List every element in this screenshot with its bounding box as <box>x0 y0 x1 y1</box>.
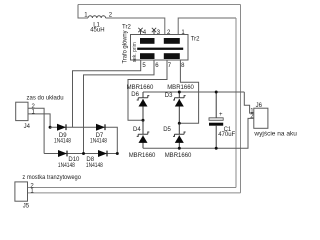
svg-text:sek. prim: sek. prim <box>132 42 138 62</box>
wire Tr2 pin1 to right bus <box>178 18 236 35</box>
label J5 pin 1 <box>30 189 34 195</box>
label J5 pin 2 <box>30 183 34 189</box>
Tr2 core bar <box>137 48 183 50</box>
no-connect X on pin 4 <box>138 28 142 32</box>
diode D4 <box>137 120 150 148</box>
inductor L1 <box>88 16 106 18</box>
node C1 bottom <box>215 147 218 150</box>
svg-text:1N4148: 1N4148 <box>58 163 76 169</box>
wire Tr2 pin8 to D3-D5 node <box>179 60 198 123</box>
label pin 4 <box>143 30 147 36</box>
label 1N4148 D10 <box>58 163 76 169</box>
label pin 5 <box>142 63 146 69</box>
label D7 <box>96 133 104 139</box>
label pin 7 <box>168 63 172 69</box>
node C1 top <box>215 91 218 94</box>
node top row left <box>49 126 52 129</box>
label D4 <box>133 127 141 133</box>
wire J4 pin1 to top row <box>28 114 50 127</box>
label pin 1 <box>181 30 185 36</box>
label Trafo główny (rotated) <box>123 31 129 64</box>
label Tr2 upper <box>122 24 131 30</box>
svg-text:1N4148: 1N4148 <box>54 139 72 145</box>
svg-text:J5: J5 <box>23 204 30 210</box>
diode D7 <box>96 124 105 131</box>
wire J4 pin2 to bottom row <box>28 108 44 153</box>
Tr2 winding bar top-right <box>164 38 180 44</box>
svg-text:D5: D5 <box>163 127 171 133</box>
label D10 <box>68 157 80 163</box>
wire bottom diode row <box>44 153 117 155</box>
wire top diode row <box>50 127 117 153</box>
diode D3 <box>173 92 186 123</box>
wire net to J6 pin1 <box>244 92 254 113</box>
wire right inner vertical <box>235 18 237 188</box>
Tr2 pin 4 stub <box>140 29 142 35</box>
wire Tr2 pin5 to top diode row <box>73 60 141 127</box>
svg-text:Tr2: Tr2 <box>122 24 131 30</box>
label 1N4148 D9 <box>54 139 72 145</box>
label J4 pin 2 <box>32 104 36 110</box>
label MBR1660 bottom-right <box>165 153 192 159</box>
wire J5 pin2 long horizontal <box>28 187 237 189</box>
diode D5 <box>173 123 186 148</box>
label J4 <box>24 124 31 130</box>
diode D8 <box>98 150 107 157</box>
no-connect X on pin 3 <box>152 28 156 32</box>
label J6 <box>256 103 263 109</box>
label L1 pin 2 <box>109 13 113 19</box>
connector J6 box <box>254 108 268 128</box>
node D3 cathode on net <box>178 91 181 94</box>
label wyjście na aku <box>253 131 297 137</box>
label D9 <box>59 133 67 139</box>
label C1 plus <box>219 112 223 118</box>
connector J5 box <box>15 182 28 201</box>
transformer Tr2 box <box>131 35 189 61</box>
svg-text:MBR1660: MBR1660 <box>127 85 154 91</box>
wire Tr2 pin7 to D6-D4 node <box>128 60 167 120</box>
svg-text:MBR1660: MBR1660 <box>167 85 194 91</box>
wire J5 pin1 long horizontal <box>28 192 241 194</box>
diode D10 <box>58 150 67 157</box>
label D8 <box>86 157 94 163</box>
svg-text:470uF: 470uF <box>218 132 235 138</box>
svg-text:D3: D3 <box>165 93 173 99</box>
label L1 <box>93 23 100 29</box>
label 1N4148 D7 <box>90 139 108 145</box>
label MBR1660 top-left <box>127 85 154 91</box>
node D3-D5 junction <box>178 122 181 125</box>
capacitor C1 <box>209 92 223 148</box>
label J4 pin 1 <box>32 110 36 116</box>
wire L1 to Tr2 pin2 <box>106 18 165 35</box>
svg-text:Tr2: Tr2 <box>191 37 200 43</box>
Tr2 pin 3 stub <box>153 29 155 35</box>
label D3 <box>165 93 173 99</box>
svg-text:J4: J4 <box>24 124 31 130</box>
label D6 <box>131 92 139 98</box>
wire negative rail <box>143 118 254 148</box>
svg-text:MBR1660: MBR1660 <box>129 153 156 159</box>
node pin6 on bottom row <box>82 152 85 155</box>
Tr2 winding bar bottom-right <box>164 53 180 59</box>
node rows join <box>116 152 119 155</box>
svg-text:wyjście na aku: wyjście na aku <box>253 131 297 137</box>
label sek prim (rotated) <box>132 42 138 62</box>
label pin 2 <box>167 30 171 36</box>
svg-text:J6: J6 <box>256 103 263 109</box>
svg-text:zas do układu: zas do układu <box>27 96 64 102</box>
wire cathode net (positive rail) <box>143 91 244 93</box>
label L1 pin 1 <box>84 13 88 19</box>
label J6 pin 1 <box>250 109 254 115</box>
svg-text:MBR1660: MBR1660 <box>165 153 192 159</box>
label pin 6 <box>155 63 159 69</box>
wire left drop to L1 <box>78 5 88 19</box>
label J5 <box>23 204 30 210</box>
label Tr2 right <box>191 37 200 43</box>
svg-text:45uH: 45uH <box>90 27 104 33</box>
label C1 <box>224 127 232 133</box>
label zas do układu <box>27 96 64 102</box>
node D5 anode on rail <box>178 147 181 150</box>
label MBR1660 bottom-left <box>129 153 156 159</box>
svg-text:Trafo główny: Trafo główny <box>123 31 129 64</box>
Tr2 winding bar bottom-left <box>140 53 155 59</box>
label MBR1660 top-right <box>167 85 194 91</box>
svg-text:D4: D4 <box>133 127 141 133</box>
node D6-D4 junction <box>142 119 145 122</box>
label D5 <box>163 127 171 133</box>
connector J4 box <box>16 102 28 120</box>
Tr2 winding bar top-left <box>140 38 155 44</box>
svg-text:D6: D6 <box>131 92 139 98</box>
wire right outer vertical <box>240 5 242 193</box>
diode D6 <box>137 92 150 120</box>
label 1N4148 D8 <box>86 163 104 169</box>
wire top bus <box>78 4 241 6</box>
svg-text:z mostka tranzytowego: z mostka tranzytowego <box>22 175 81 181</box>
label J6 pin 2 <box>250 114 254 120</box>
svg-text:1N4148: 1N4148 <box>86 163 104 169</box>
wire Tr2 pin6 to bottom diode row <box>84 60 155 154</box>
label pin 8 <box>181 63 185 69</box>
label pin 3 <box>157 30 161 36</box>
svg-text:+: + <box>219 112 223 118</box>
svg-text:1N4148: 1N4148 <box>90 139 108 145</box>
label 470uF <box>218 132 235 138</box>
label z mostka tranzytowego <box>22 175 81 181</box>
diode D9 <box>57 124 66 131</box>
label 45uH <box>90 27 104 33</box>
